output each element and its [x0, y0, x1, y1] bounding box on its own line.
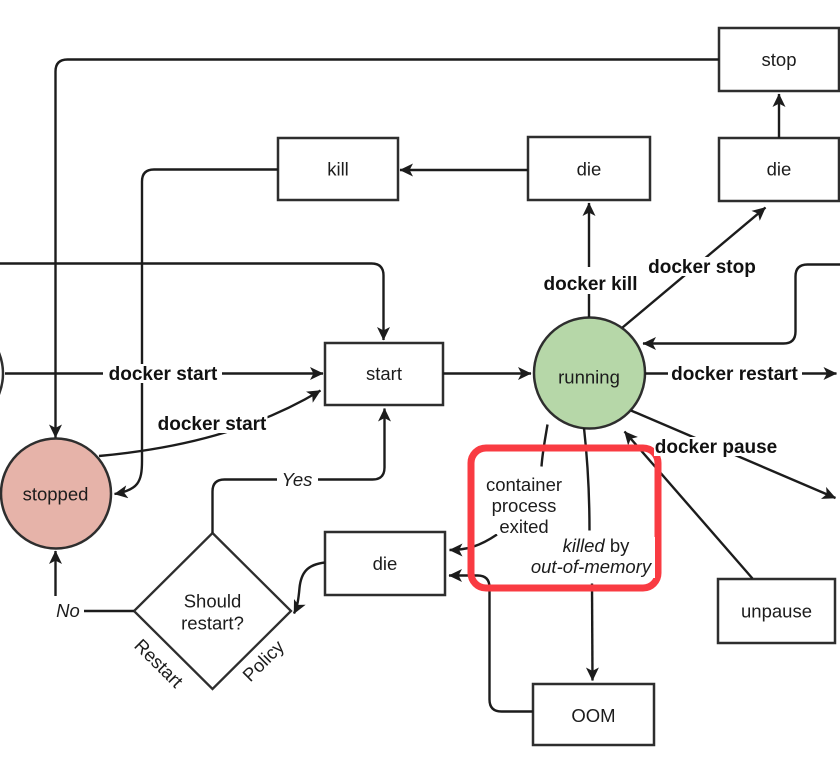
svg-text:docker stop: docker stop — [648, 257, 756, 278]
svg-text:restart?: restart? — [181, 613, 244, 634]
svg-text:stop: stop — [762, 49, 797, 70]
svg-text:Should: Should — [184, 591, 242, 612]
wire: die right to stop — [778, 94, 780, 138]
wire: killed-by text down to OOM — [591, 584, 594, 681]
wire: OOM to die bottom — [449, 576, 533, 712]
svg-text:die: die — [767, 159, 792, 180]
wire: running down to killed-by text — [584, 428, 590, 531]
svg-text:No: No — [56, 600, 80, 621]
wire: kill to stopped — [115, 170, 279, 495]
wire: loop from right edge into running — [643, 265, 840, 344]
svg-text:Yes: Yes — [282, 469, 313, 490]
label: container process exited — [484, 474, 564, 537]
svg-text:container: container — [486, 474, 562, 495]
label: docker restart — [668, 364, 802, 385]
svg-text:docker start: docker start — [109, 364, 218, 385]
label: docker pause — [654, 437, 778, 458]
label: docker stop — [645, 257, 759, 278]
node: kill box — [278, 138, 398, 200]
svg-text:stopped: stopped — [23, 484, 89, 505]
svg-text:kill: kill — [327, 159, 349, 180]
svg-text:OOM: OOM — [571, 705, 615, 726]
svg-text:running: running — [558, 367, 620, 388]
svg-text:start: start — [366, 363, 402, 384]
wire: unpause to running — [625, 432, 753, 579]
wire: die middle to kill — [400, 169, 528, 171]
node: start box — [325, 343, 443, 405]
wire: docker stop (running to die right) — [623, 208, 766, 328]
label: docker start (curved) — [157, 414, 268, 435]
wire: docker pause (running to right edge bottom) — [631, 411, 836, 499]
svg-text:docker start: docker start — [158, 414, 267, 435]
svg-text:docker restart: docker restart — [671, 364, 798, 385]
svg-text:process: process — [492, 495, 557, 516]
node: die box (right) — [719, 138, 839, 201]
wire: docker start horizontal (created to start) — [5, 372, 323, 374]
wire: stop to stopped (top long line) — [56, 60, 720, 438]
svg-text:die: die — [577, 159, 602, 180]
svg-text:out-of-memory: out-of-memory — [531, 556, 653, 577]
node: Should restart? diamond — [134, 533, 291, 689]
label: killed by out-of-memory — [531, 535, 655, 578]
wire: docker start curve (stopped to start) — [99, 391, 321, 457]
node: die box (bottom) — [325, 532, 445, 595]
node: die box (middle) — [528, 137, 650, 200]
wire: running down to container-process-exited text — [542, 425, 548, 467]
red highlight rounded box — [471, 448, 658, 588]
label: docker start (on created-start line) — [103, 364, 222, 385]
node: running circle — [534, 318, 645, 429]
label: docker kill — [542, 267, 639, 295]
node: OOM box — [533, 684, 654, 745]
wire: from left edge into start top — [0, 264, 384, 341]
wire: start to running — [443, 372, 531, 374]
node: stopped circle — [1, 439, 111, 549]
wire: die bottom to diamond — [294, 563, 325, 614]
wire: No line (diamond to stopped bottom) — [56, 551, 135, 611]
wire: docker restart (running to right edge) — [645, 372, 837, 374]
svg-text:unpause: unpause — [741, 601, 812, 622]
svg-text:exited: exited — [499, 516, 548, 537]
wire: container-process-exited text to die bottom — [450, 535, 498, 551]
wire: docker kill (running to die middle) — [588, 203, 590, 317]
svg-text:die: die — [373, 553, 398, 574]
label: No — [52, 596, 84, 621]
svg-text:killed by: killed by — [563, 535, 631, 556]
label: Yes — [277, 469, 318, 490]
svg-text:docker kill: docker kill — [544, 274, 638, 295]
wire: Yes line (diamond to start bottom) — [213, 409, 385, 534]
node: unpause box — [718, 579, 835, 643]
svg-text:docker pause: docker pause — [655, 437, 778, 458]
node: created circle (off-canvas left edge arc) — [0, 319, 3, 429]
node: stop box — [719, 28, 839, 91]
